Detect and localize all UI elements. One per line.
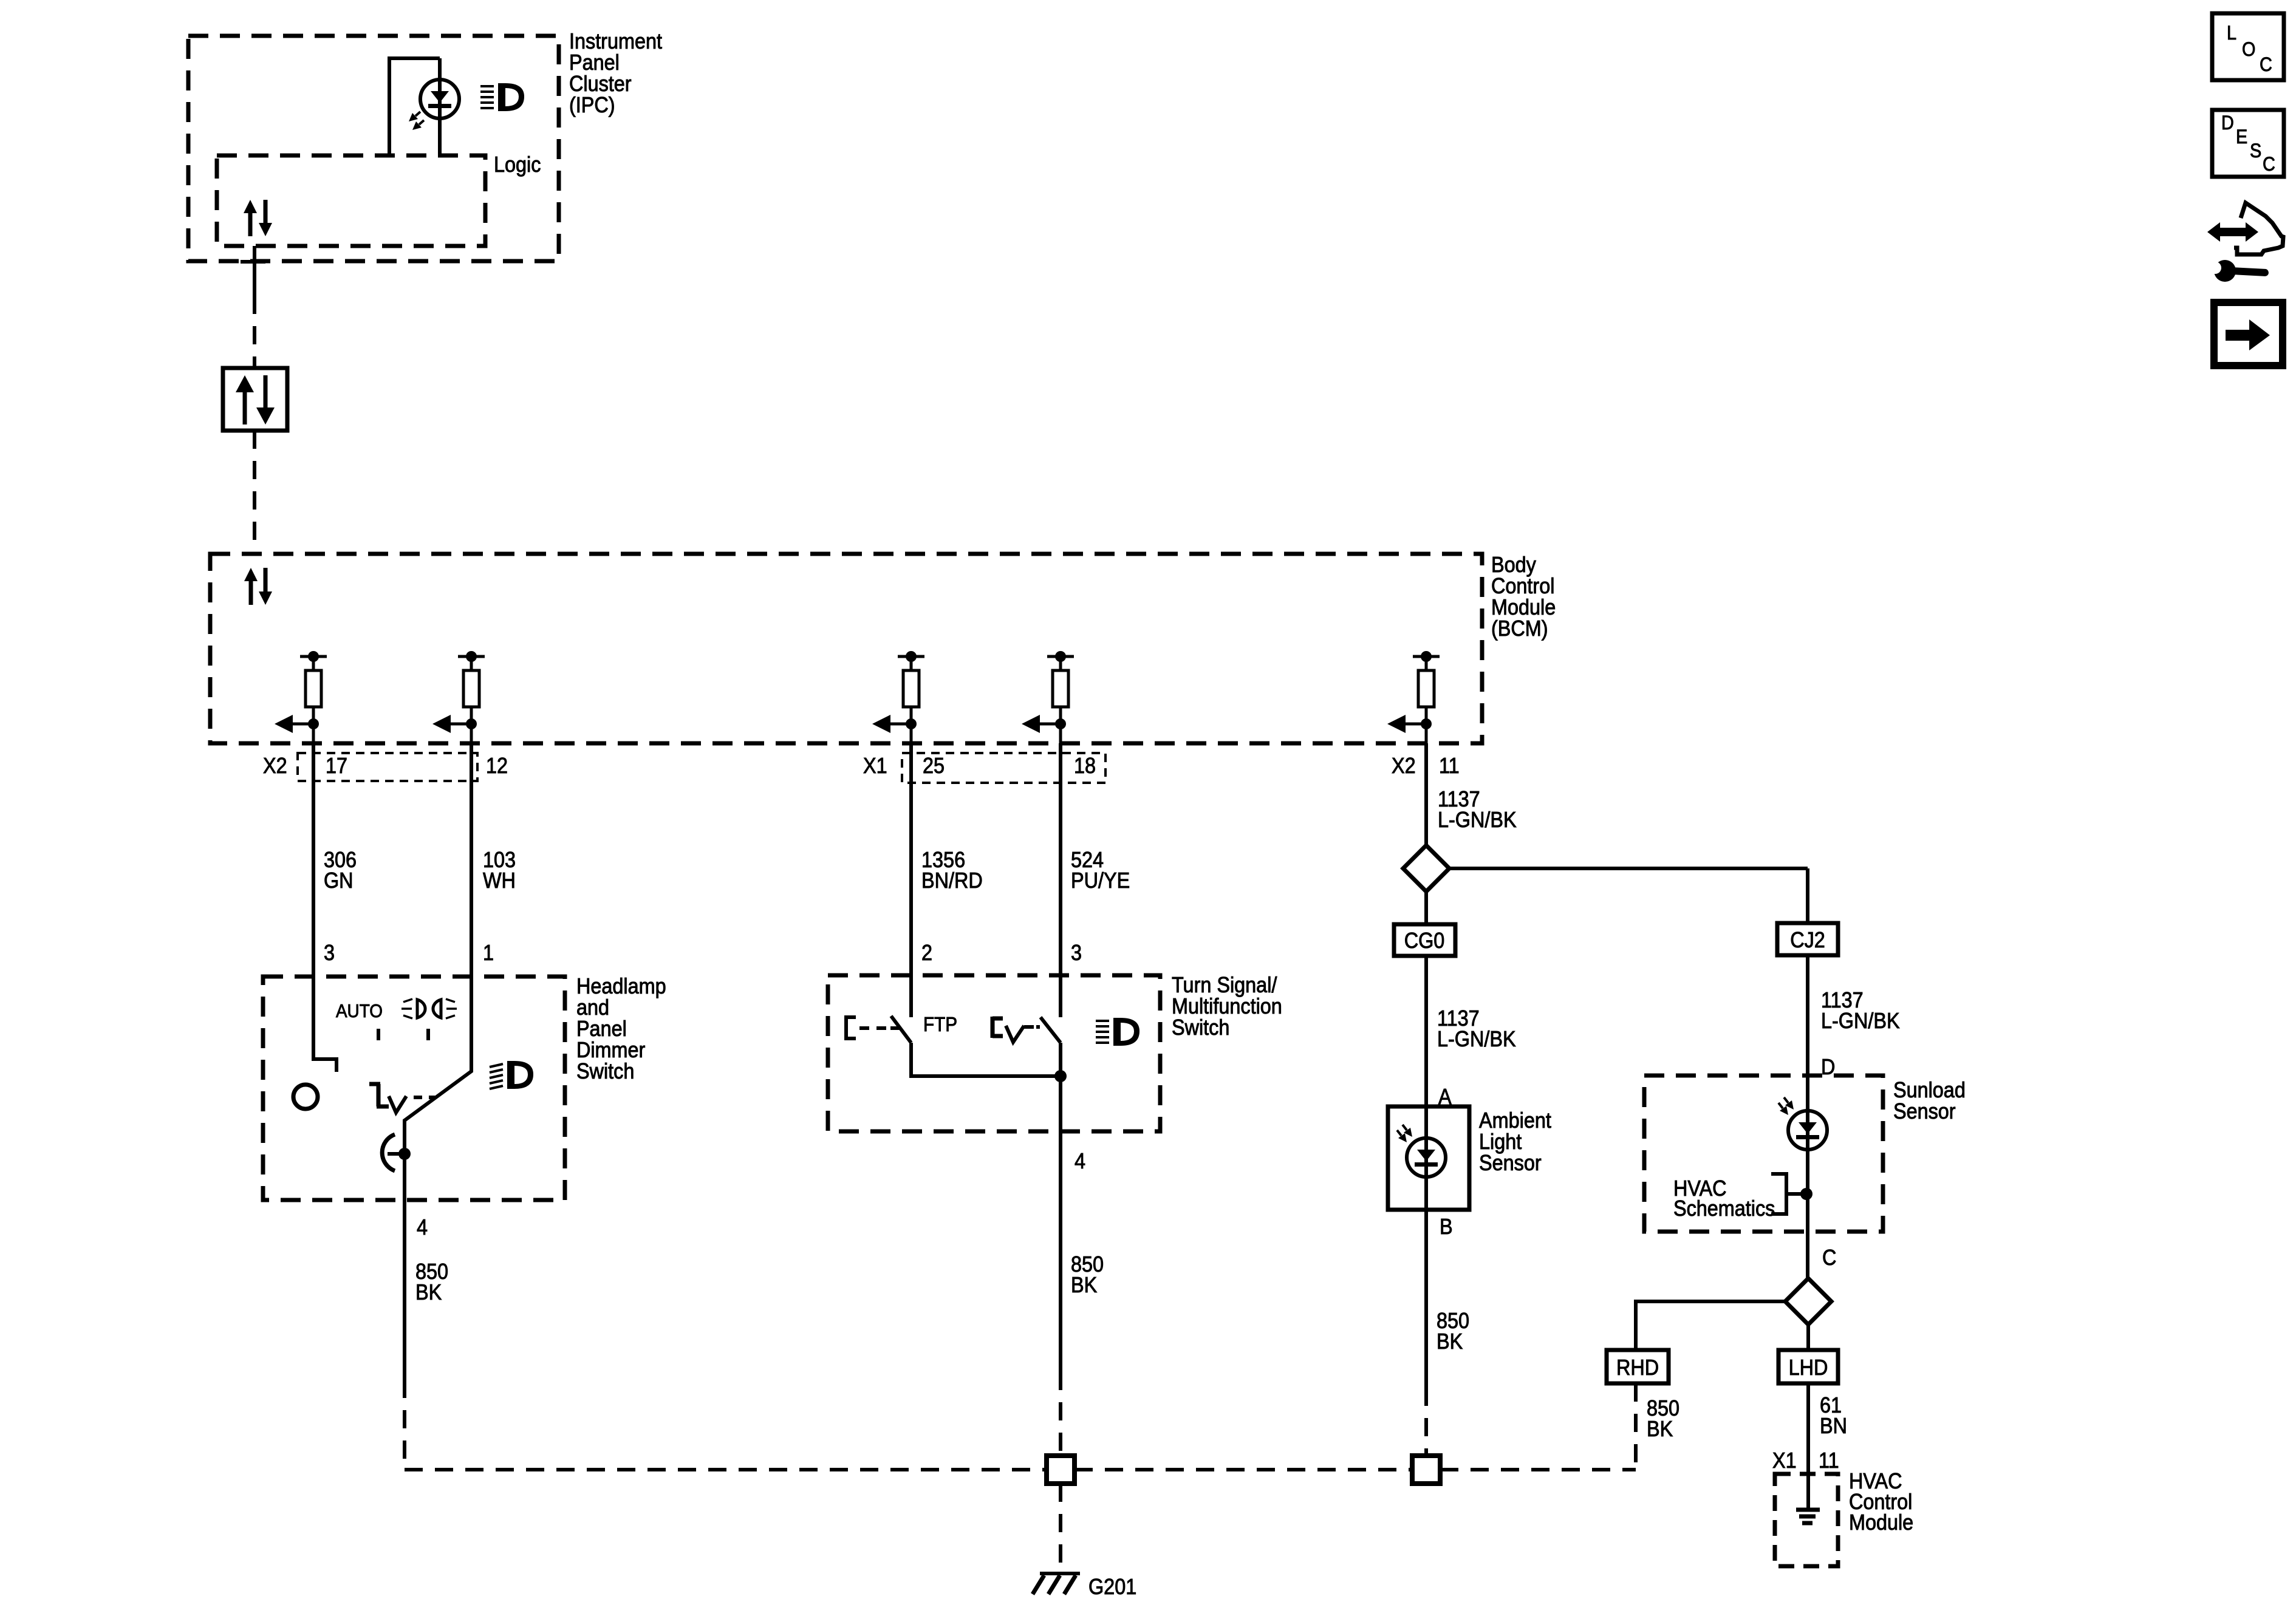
svg-text:D: D [2221,112,2234,134]
internal ground, HVAC control module [1796,1510,1820,1523]
svg-text:HVACControlModule: HVACControlModule [1849,1469,1913,1535]
svg-text:17: 17 [326,754,347,778]
wire 103 WH [470,743,473,977]
serial data arrows, BCM [244,568,272,605]
svg-text:1356BN/RD: 1356BN/RD [921,848,983,893]
connector label box X2 (pins 17,12) [298,753,477,781]
svg-text:3: 3 [1071,941,1082,965]
wire sunload to diamond [1806,1232,1809,1278]
connector CG0 [1394,924,1455,956]
Headlamp and Panel Dimmer Switch box [263,977,565,1200]
svg-text:12: 12 [486,754,508,778]
svg-text:C: C [1822,1246,1836,1270]
data link connector box [223,368,287,431]
svg-text:S: S [2250,140,2261,162]
vehicle orientation icon [2207,203,2283,254]
junction square S201 [1047,1456,1075,1484]
pin tick, HVAC top [1802,1472,1816,1476]
wire: serial data from IPC [253,246,256,368]
svg-text:306GN: 306GN [324,848,357,893]
option box LHD [1778,1350,1838,1383]
resistor and signal arrow, BCM pin X2-12 [432,651,485,743]
svg-text:RHD: RHD [1616,1355,1659,1380]
resistor and signal arrow, BCM pin X2-11 [1387,651,1440,743]
svg-text:1: 1 [483,941,494,965]
Instrument Panel Cluster (IPC) module box [188,36,559,261]
svg-text:25: 25 [923,754,945,778]
svg-text:CG0: CG0 [1404,929,1445,953]
switch blade FTP [891,1016,911,1043]
junction dot, multifunction switch [1054,1070,1067,1082]
HVAC Control Module box [1775,1474,1838,1566]
option box RHD [1607,1350,1669,1383]
splice diamond 1137 [1403,845,1449,892]
wire to RHD [1636,1301,1785,1350]
wire to LHD [1806,1325,1810,1350]
FTP fixed contact bracket [846,1017,887,1038]
serial data arrows, IPC logic [244,200,272,236]
svg-text:B: B [1440,1215,1453,1239]
dashed wire 850 BK below RHD [1634,1383,1638,1470]
ground G201 [1033,1573,1080,1594]
headlamp icon, dimmer switch [490,1061,533,1089]
svg-text:2: 2 [921,941,932,965]
svg-text:L: L [2227,22,2236,44]
junction square S202 [1412,1456,1440,1484]
svg-text:FTP: FTP [923,1014,957,1036]
Turn Signal/Multifunction Switch box [828,975,1160,1131]
wire CG0 to ambient sensor [1424,892,1428,1106]
wiper contact symbol, dimmer switch [369,1084,406,1113]
svg-text:HeadlampandPanelDimmerSwitch: HeadlampandPanelDimmerSwitch [576,974,666,1083]
svg-text:AmbientLightSensor: AmbientLightSensor [1479,1108,1551,1175]
svg-text:X2: X2 [263,754,287,778]
svg-text:850BK: 850BK [1437,1309,1469,1354]
resistor and signal arrow, BCM pin X1-18 [1022,651,1074,743]
parking lamps icon [401,999,457,1018]
switch blade, headlamp [1040,1017,1061,1043]
wire: serial data to BCM [253,431,256,554]
wire 61 BN [1806,1383,1810,1474]
svg-text:LHD: LHD [1789,1355,1828,1380]
indicator LED, IPC headlamp telltale [409,80,459,130]
wire: switch output to pin 4 [1059,1043,1062,1131]
wire 1137 from BCM pin 11 [1424,743,1428,845]
pin tick, IPC bottom [241,260,265,264]
Ambient Light Sensor box [1388,1106,1469,1210]
svg-text:4: 4 [417,1215,428,1239]
wire below ambient sensor [1424,1106,1428,1210]
wire 850 BK from dimmer switch [403,1201,406,1470]
tap dot, sunload sensor [1800,1188,1813,1200]
svg-text:18: 18 [1074,754,1096,778]
splice diamond RHD/LHD [1785,1278,1831,1325]
svg-text:X1: X1 [863,754,887,778]
headlamp-on telltale icon [480,83,524,111]
svg-text:AUTO: AUTO [336,1001,383,1022]
DESC nav box [2212,110,2284,177]
connector label box X1 (pins 25,18) [902,753,1105,783]
wire 524 PU/YE [1059,743,1062,1017]
wire to internal ground [1806,1474,1810,1510]
dashed link, multifunction wiper [1036,1025,1040,1029]
svg-text:Logic: Logic [494,152,541,177]
Logic sub-block box [217,155,485,246]
AUTO position tick [377,1029,380,1040]
svg-text:61BN: 61BN [1820,1393,1847,1438]
svg-text:3: 3 [324,941,335,965]
svg-text:D: D [1821,1055,1835,1079]
forward nav box [2214,302,2283,366]
wire 306 GN [312,743,315,977]
svg-text:E: E [2236,126,2247,148]
svg-text:C: C [2263,154,2275,176]
svg-text:InstrumentPanelCluster(IPC): InstrumentPanelCluster(IPC) [569,29,662,117]
svg-text:O: O [2242,39,2255,61]
wiper contact symbol, multifunction switch [993,1017,1034,1042]
Sunload Sensor box [1644,1076,1883,1232]
connector CJ2 [1777,923,1838,955]
svg-text:X1: X1 [1772,1448,1797,1473]
OFF position contact circle [293,1085,318,1109]
parking position tick [426,1029,430,1040]
wire 850 BK ambient [1424,1210,1428,1456]
svg-text:4: 4 [1075,1149,1085,1173]
svg-text:524PU/YE: 524PU/YE [1071,848,1130,893]
headlamp icon, multifunction switch [1096,1018,1139,1046]
wire 850 BK center [1059,1131,1062,1456]
svg-text:850BK: 850BK [1647,1396,1679,1441]
svg-text:1137L-GN/BK: 1137L-GN/BK [1821,988,1900,1033]
wire: IPC indicator lamp loop [389,58,440,155]
resistor and signal arrow, BCM pin X1-25 [872,651,924,743]
svg-text:Turn Signal/MultifunctionSwitc: Turn Signal/MultifunctionSwitch [1172,973,1282,1040]
svg-text:850BK: 850BK [415,1260,448,1304]
svg-text:CJ2: CJ2 [1790,928,1825,952]
serial data arrows, data link box [236,375,275,424]
HVAC schematics tap bracket [1771,1174,1806,1214]
svg-text:BodyControlModule(BCM): BodyControlModule(BCM) [1491,553,1556,641]
junction dot, dimmer switch [398,1148,411,1160]
wire: switch blade from pin 1 [405,977,471,1201]
svg-text:11: 11 [1439,754,1460,778]
LOC nav box [2212,13,2284,80]
wire to CJ2 [1449,868,1808,923]
svg-text:HVACSchematics: HVACSchematics [1673,1176,1775,1221]
resistor and signal arrow, BCM pin X2-17 [275,651,327,743]
wire: FTP to junction [911,1043,1061,1076]
dashed wire to G201 [1059,1484,1062,1572]
wire 1356 BN/RD [909,743,913,1017]
low contact curl [382,1134,405,1171]
svg-text:C: C [2260,54,2272,76]
svg-text:X2: X2 [1392,754,1416,778]
svg-text:11: 11 [1819,1448,1839,1473]
wire: pin 3 fixed contact hook [313,977,337,1072]
FTP contact arm [890,1026,900,1030]
wrench icon [2201,260,2269,282]
svg-text:850BK: 850BK [1071,1252,1104,1297]
svg-text:SunloadSensor: SunloadSensor [1893,1078,1966,1123]
wire inside sunload sensor [1806,1076,1809,1232]
svg-text:1137L-GN/BK: 1137L-GN/BK [1437,1006,1516,1051]
photodiode, ambient light sensor [1397,1125,1446,1177]
wire CJ2 to sunload sensor [1806,955,1809,1076]
dashed link, wiper [414,1096,435,1099]
svg-text:103WH: 103WH [483,848,516,893]
Body Control Module (BCM) box [210,554,1482,743]
svg-text:1137L-GN/BK: 1137L-GN/BK [1438,787,1517,832]
photodiode, sunload sensor [1778,1097,1827,1150]
dashed ground bus 850 BK [405,1468,1636,1471]
svg-text:G201: G201 [1088,1575,1136,1599]
